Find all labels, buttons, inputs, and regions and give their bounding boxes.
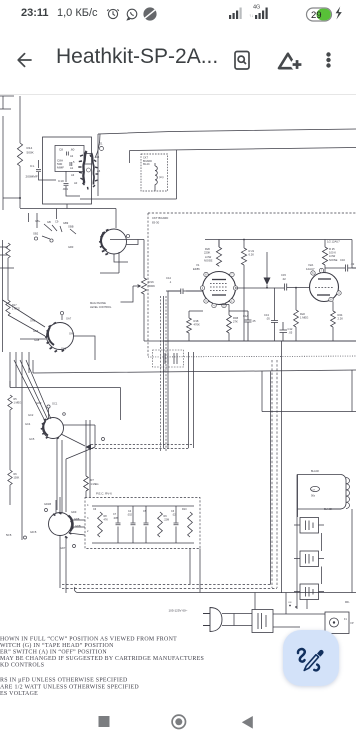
whatsapp icon [127,9,137,20]
svg-text:500K: 500K [27,151,35,155]
svg-text:47K: 47K [104,519,109,522]
wire long bottom solid [74,587,356,593]
fuse box [325,612,349,634]
svg-text:P.E.C. RV-6: P.E.C. RV-6 [96,492,112,496]
circuit board 83-30 dashed edge left [147,213,149,357]
S4 thick arc [43,421,48,436]
svg-text:EF86: EF86 [193,267,200,271]
S2 contacts [99,230,108,255]
svg-text:GC2: GC2 [28,413,34,417]
resistor R5 [8,395,12,410]
status bar [0,0,356,26]
svg-text:.002: .002 [127,514,132,517]
svg-text:4G: 4G [253,5,260,11]
S2 label pointers [42,224,76,239]
svg-text:GD7: GD7 [60,546,66,550]
signature FAB [283,630,339,686]
capacitor C15 symbol [285,284,287,291]
wire long rail y337 [20,338,46,340]
wire left stubs mid [0,247,119,273]
svg-text:12AU7: 12AU7 [306,267,315,271]
find-in-document icon [235,52,249,70]
wire into wafer3 a [3,300,46,327]
wire R24 [332,302,334,342]
svg-text:ON: ON [288,602,292,604]
back arrow [18,54,31,67]
wire wafer2 right [110,240,144,245]
svg-text:1 MEG: 1 MEG [14,402,22,405]
rotary switch wafer S4 [43,418,64,439]
svg-text:27K: 27K [233,320,238,324]
svg-text:90s: 90s [311,495,316,498]
S4 contacts [41,419,59,439]
wire to wafer2 [115,209,117,229]
svg-text:500K: 500K [149,284,156,288]
circuit board 83-30 dashed edge top [148,212,356,214]
wire sockets right bus [321,533,323,584]
wire inner box [84,154,92,165]
wire bundle mid verticals [189,352,194,448]
capacitor C13 [271,321,278,323]
svg-text:C16: C16 [340,258,345,262]
svg-text:100 K: 100 K [329,251,336,255]
resistor R20 [216,247,221,266]
svg-text:4: 4 [87,504,89,507]
svg-text:GB+: GB+ [35,219,41,223]
svg-text:ER” SWITCH (A) IN “OFF” POSITI: ER” SWITCH (A) IN “OFF” POSITION [0,649,107,656]
svg-text:C17: C17 [311,489,316,491]
svg-text:GA6: GA6 [33,329,39,333]
S5 thick arc [69,516,73,532]
svg-text:A1: A1 [70,166,74,170]
svg-text:C8: C8 [59,148,63,152]
svg-text:GA8: GA8 [34,338,40,342]
svg-text:LOW: LOW [205,255,212,259]
resistor R19 cathode [227,315,232,333]
svg-text:GD1B: GD1B [44,502,51,506]
add-to-drive icon [279,54,303,71]
dashed vertical pair right b [276,360,278,588]
wire top rail amp [205,239,352,241]
svg-text:HOWN IN FULL “CCW” POSITION AS: HOWN IN FULL “CCW” POSITION AS VIEWED FR… [0,636,177,643]
signal arrow down [264,278,271,286]
wire C5 [145,506,147,543]
S3 thick arc [48,327,54,345]
tube V2A 12AU7 [310,268,342,301]
output transformer box [298,475,347,518]
svg-text:29: 29 [311,10,322,21]
capacitor C8 symbol [67,152,69,156]
wire C4 [132,506,134,543]
wire R21 [243,240,245,342]
svg-text:C10: C10 [58,179,64,183]
svg-text:.001: .001 [62,187,68,191]
box feedback [262,370,356,412]
wire bundle vertical solid b [168,291,180,448]
junction dot R21 [243,239,245,241]
P.E.C. dashed box [85,498,200,549]
svg-text:BLACK: BLACK [311,470,320,473]
svg-text:.60: .60 [70,148,75,152]
dashed bottom pair b [62,588,277,590]
phono socket J1 [300,518,319,534]
wire R19 [219,305,229,342]
svg-text:NOISE: NOISE [329,258,338,262]
svg-text:GA5: GA5 [69,332,75,336]
wire R22 [295,288,297,342]
wire C16 [325,267,356,269]
wire coil top [154,163,156,191]
capacitor C8A symbol [70,162,72,166]
capacitor C10 symbol [64,184,69,186]
switch dots bottom [289,605,291,607]
svg-text:LOW: LOW [329,254,336,258]
svg-text:R22: R22 [300,312,305,316]
wire R7 vert [86,459,90,497]
svg-text:R10: R10 [182,508,187,511]
wire R18 [188,311,190,341]
navigation bar [0,702,356,750]
wire can right down [330,509,352,593]
wire y371 left turn [32,360,34,373]
box input network [43,137,92,204]
wire arrow [266,252,268,287]
capacitor C1A [245,311,252,341]
svg-text:C12: C12 [288,327,293,331]
svg-text:GD9: GD9 [71,510,77,514]
PEC bottom rail [92,542,194,544]
rotary switch wafer S1 [78,151,98,190]
svg-text:2: 2 [87,530,89,533]
wire cathode link [189,310,248,312]
wire wafer4 diag [61,434,85,446]
svg-text:C1.: C1. [30,164,35,168]
wire left vert mid [3,240,9,352]
rotary switch wafer S2 [102,229,127,254]
wire long y387 [10,381,121,420]
wire bundle vertical dashed b [165,296,167,452]
svg-text:GB2: GB2 [33,232,39,236]
svg-text:LEVEL CONTROL: LEVEL CONTROL [90,305,112,309]
svg-text:BLACK: BLACK [324,508,333,511]
junction R22 [295,287,297,289]
svg-text:100K: 100K [14,477,20,480]
capacitor C7 [116,523,121,525]
svg-text:A3: A3 [71,173,75,177]
wire x86 upper [86,420,90,459]
svg-text:C13: C13 [264,313,269,317]
small dashed box bottom of board [153,350,184,367]
svg-text:GC1: GC1 [52,402,58,406]
solid vertical right of pair [271,341,282,593]
svg-text:MMF: MMF [57,166,64,170]
phono socket J3 [300,584,319,600]
tube V1 EF86 [200,266,237,308]
circuit board 89-2C dashed box [141,154,168,191]
svg-text:GC5: GC5 [29,437,35,441]
wire R16 bottom [143,294,145,341]
capacitor C1 symbol [36,170,41,172]
svg-text:C15: C15 [281,273,286,277]
svg-text:MAG PHONE: MAG PHONE [90,301,106,305]
svg-text:.1: .1 [169,280,172,284]
svg-text:.02: .02 [282,277,286,281]
svg-text:220K: 220K [204,251,210,255]
svg-text:R7: R7 [91,478,95,482]
wire wafer2 side stubs [29,209,57,229]
svg-text:R14: R14 [27,146,33,150]
wire wafer4 up lines [14,360,51,421]
svg-text:R1B: R1B [233,316,238,320]
C junction label [102,438,105,441]
svg-text:470K: 470K [194,323,200,327]
junction dot R14 [19,197,21,199]
AC plug [203,608,222,632]
svg-text:GD8: GD8 [74,517,80,521]
wire left diagonal [3,197,20,199]
svg-text:GD B: GD B [30,530,37,534]
wire verticals left cluster [10,352,29,420]
svg-text:C7: C7 [113,513,117,516]
svg-text:2.2K: 2.2K [338,317,344,321]
S2 thick arc [101,233,107,251]
svg-text:.05: .05 [266,317,270,321]
PEC top rail [92,505,194,507]
wire S1 to top rail [95,134,100,158]
svg-text:WITCH (G) IN “TAPE HEAD” POSIT: WITCH (G) IN “TAPE HEAD” POSITION [0,642,114,649]
svg-text:GB: GB [47,220,51,224]
capacitor C4 [131,523,136,525]
svg-text:83-30: 83-30 [152,221,160,225]
resistor R7 [84,476,89,491]
power transformer primary box [252,610,273,633]
svg-text:R20: R20 [205,247,210,251]
wire into wafer3 b [8,315,45,336]
pen squiggle icon [298,649,319,670]
dashed bottom pair a [62,584,272,586]
arrow on dashed [86,444,92,450]
svg-text:ES VOLTAGE: ES VOLTAGE [0,691,38,697]
box inner cap section [55,146,84,172]
wire V1 plate top [218,240,220,267]
alarm clock icon [107,9,119,18]
wire R16 wiper [121,286,134,302]
resistor R14 [17,143,22,166]
capacitor C12 electrolytic [280,322,288,341]
4G + signal bars 2 [249,5,268,20]
back triangle [242,716,253,729]
resistor R21 [241,248,246,265]
svg-text:GA8: GA8 [61,347,67,351]
wire box bottom link [20,204,116,209]
wire wafer3 right [74,336,96,360]
wire wafer3 up [61,315,63,320]
svg-text:C9: C9 [55,220,59,224]
resistor R17 [6,300,10,315]
svg-text:.22M: .22M [164,519,170,522]
wire R14 bottom [19,166,21,208]
resistor R10 [188,512,193,537]
S3 pin circle [60,311,63,314]
svg-text:3: 3 [87,517,89,520]
home circle [172,715,185,728]
svg-text:ARE 1/2 WATT UNLESS OTHERWISE: ARE 1/2 WATT UNLESS OTHERWISE SPECIFIED [0,684,139,690]
svg-text:.02: .02 [351,262,355,266]
svg-text:GA1: GA1 [30,319,36,323]
wire right edge vert [352,240,356,269]
wire rail2 drop [129,151,131,164]
app bar [0,26,356,94]
wire wafer5 stubs [60,520,85,593]
wire C3 [175,506,177,543]
resistor R6 [8,470,12,485]
S1 pin circle top [100,147,104,151]
capacitor C14 symbol [181,289,183,295]
svg-text:C1A: C1A [243,314,248,318]
wire bundle vertical solid a [163,296,165,448]
capacitor C3 [174,523,179,525]
resistor R22 [294,310,299,327]
svg-text:GDB: GDB [75,524,81,528]
svg-text:1 MEG: 1 MEG [91,482,99,486]
wire wafer2 down [114,240,144,279]
wire R14 top [19,96,21,143]
resistor R24 [331,311,336,327]
capacitor C16 symbol [346,265,348,272]
svg-text:A2: A2 [70,154,74,158]
svg-text:1/2 12AU7: 1/2 12AU7 [327,240,340,244]
svg-text:R18: R18 [194,319,199,323]
svg-text:KD CONTROLS: KD CONTROLS [0,663,44,669]
svg-text:.005: .005 [113,517,118,520]
svg-text:.02: .02 [172,514,176,517]
svg-text:GR3: GR3 [68,245,74,249]
svg-text:.05: .05 [289,331,293,335]
svg-text:GBB: GBB [68,225,74,229]
capacitor C5 [144,523,149,525]
dashed bottom edge dotted [148,356,356,357]
wire bottom misc [190,549,286,615]
resistor R25 [322,247,327,265]
dark circle icon [143,7,156,20]
svg-text:NOISE: NOISE [204,259,213,263]
svg-text:C6: C6 [93,508,97,511]
inductor L1 coil [155,166,157,184]
svg-text:89-2C: 89-2C [143,163,150,166]
phono socket J2 [300,551,319,567]
solid turn [57,439,95,514]
svg-text:GY: GY [163,370,167,373]
recents square [99,716,110,727]
wire V1 plate to C15 [236,287,311,290]
resistor R9 [158,512,163,537]
dashed vertical pair right a [271,360,273,588]
wire left lower [10,410,22,540]
wire left vertical [2,116,4,210]
wire C13 [274,288,276,341]
svg-text:A6: A6 [97,169,101,173]
wire V1 grid [186,290,203,292]
svg-text:FP: FP [351,622,354,625]
svg-text:200MMF: 200MMF [26,175,38,179]
svg-text:GC4: GC4 [25,422,31,426]
junction plate [266,287,268,289]
wire R20 top [218,240,220,248]
wire wafer4 right [64,425,96,447]
svg-text:R 25: R 25 [329,247,335,251]
box main right [80,134,177,199]
charging bolt [336,7,342,20]
wire C14 left [166,290,203,292]
battery pill 29% [307,8,332,21]
wire V2 grid [309,287,311,289]
wire primary to right [273,614,325,627]
wire C10 [66,171,80,196]
rotary switch wafer S3 [47,323,74,350]
notes text block [0,636,204,698]
svg-text:GA7: GA7 [66,317,72,321]
wire C1 [39,160,57,180]
svg-text:R 21: R 21 [249,249,255,253]
signal bars 1 [229,8,242,20]
C17 symbol [311,486,320,491]
svg-text:R24: R24 [338,313,343,317]
svg-text:F1: F1 [344,618,347,621]
resistor R15 [6,243,10,258]
dashed turn b [91,448,189,450]
dashed turn a [91,444,194,446]
wire bottom rail amp2 [164,340,356,342]
S3 contacts [45,323,64,352]
wire long rail y341 [144,340,356,342]
potentiometer R16 [141,278,146,294]
svg-text:1 MEG: 1 MEG [300,316,308,320]
transformer coil scallops [346,478,349,509]
svg-text:5: 5 [73,160,75,164]
svg-text:C14: C14 [166,276,171,280]
svg-text:RS IN µFD UNLESS OTHERWISE SPE: RS IN µFD UNLESS OTHERWISE SPECIFIED [0,678,128,684]
wire C7 [117,506,119,543]
S5 contacts [53,513,73,538]
svg-text:A0: A0 [74,181,78,185]
wire sockets down [297,600,307,610]
svg-text:MD-: MD- [345,601,350,604]
resistor R8 [98,512,103,537]
wire long y371 [33,370,356,373]
S5 pin circles [45,509,48,512]
wire top rail 2 [130,148,356,151]
svg-text:↑↓: ↑↓ [249,13,254,18]
wire top rail 1 [98,129,356,134]
wire R25 [324,240,325,273]
svg-text:50 B: 50 B [6,533,12,537]
wire wafer5 top [56,497,60,513]
wire sockets left bus [296,475,298,601]
three-dot menu [326,52,330,67]
svg-text:CKT BOARD: CKT BOARD [152,216,168,220]
S4 pin circle [47,405,50,408]
svg-text:25: 25 [253,319,256,323]
wire plug right [222,614,252,626]
svg-text:(L1): (L1) [159,176,164,179]
S2 pin circles [34,237,37,240]
svg-text:MAY BE CHANGED IF SUGGESTED BY: MAY BE CHANGED IF SUGGESTED BY CARTRIDGE… [0,656,204,662]
svg-text:105-125V 60~: 105-125V 60~ [169,609,188,613]
wire left edge stub [0,96,14,109]
resistor R18 [187,318,192,333]
rotary switch wafer S5 [49,513,72,536]
R16 wiper arrow [133,285,141,288]
